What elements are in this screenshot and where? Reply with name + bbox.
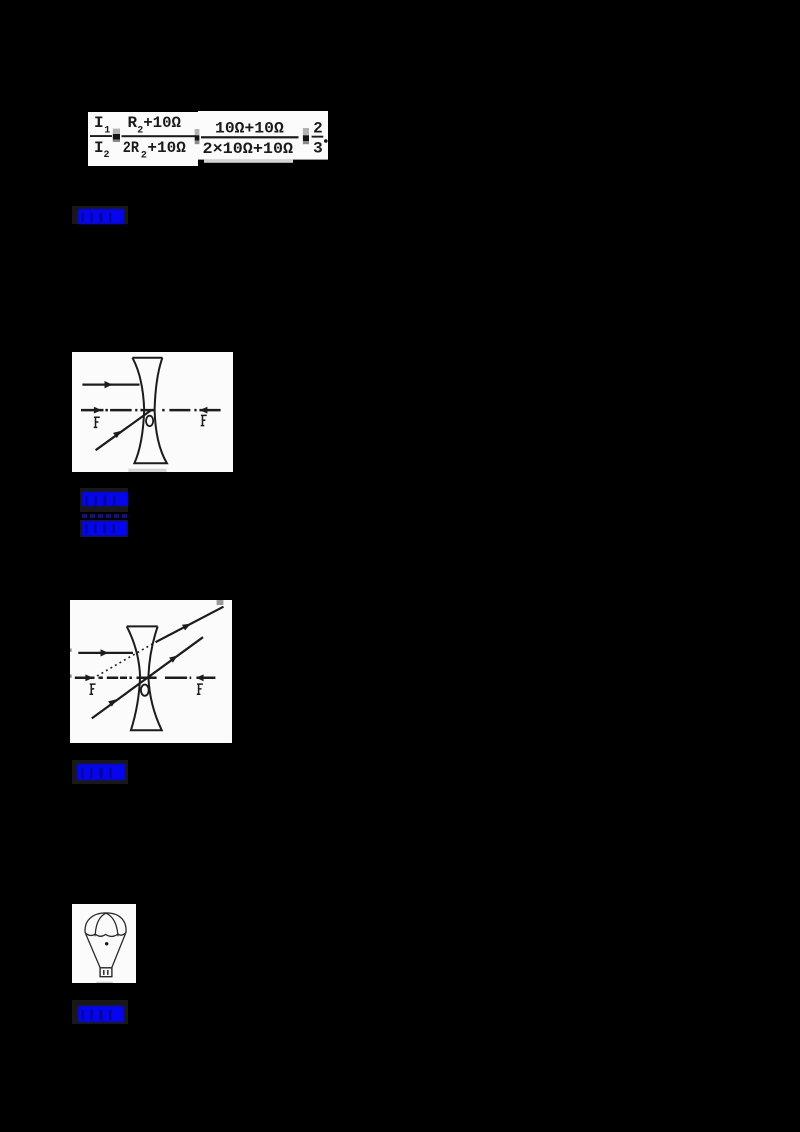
- link blob 5: [72, 1000, 128, 1024]
- basket ticks: [103, 970, 107, 975]
- svg-text:2×10Ω+10Ω: 2×10Ω+10Ω: [203, 140, 294, 158]
- refracted ray arrowhead: [182, 623, 191, 630]
- svg-text:2R: 2R: [123, 139, 140, 157]
- svg-text:3: 3: [313, 140, 323, 158]
- F right label: [197, 684, 203, 694]
- svg-text:R: R: [128, 114, 138, 132]
- scalloped edge: [85, 932, 126, 936]
- trailing period: [324, 139, 328, 143]
- axis left arrowhead: [93, 407, 101, 414]
- svg-text:2: 2: [104, 150, 110, 161]
- O label: [141, 684, 149, 695]
- = sign 3: [303, 128, 309, 135]
- svg-text:1: 1: [104, 125, 110, 136]
- bottom gray strip: [128, 469, 166, 472]
- link blob 4: [72, 760, 128, 784]
- refracted ray: [155, 606, 223, 641]
- basket: [100, 968, 112, 977]
- incident ray (top, parallel): [82, 384, 139, 386]
- dark navy dashes: [82, 514, 130, 518]
- F left label: [90, 684, 96, 694]
- svg-text:2: 2: [141, 151, 147, 162]
- optical axis dash-dot: [81, 409, 221, 412]
- concave lens body: [132, 358, 167, 464]
- lens diagram 1 (question figure): [72, 352, 233, 472]
- diagonal arrowhead high: [169, 655, 177, 662]
- center dot: [105, 942, 108, 945]
- concave lens body: [127, 626, 162, 730]
- = sign 1: [113, 129, 120, 134]
- balloon figure: [72, 904, 136, 984]
- svg-text:I: I: [94, 114, 104, 132]
- svg-text:+10Ω: +10Ω: [147, 139, 186, 157]
- svg-text:2: 2: [313, 120, 323, 138]
- incident ray arrowhead: [104, 381, 112, 388]
- suspension lines: [85, 933, 100, 967]
- canopy ribs: [95, 913, 106, 933]
- fraction (10+10)/(2x10+10): [201, 136, 299, 138]
- svg-text:I: I: [94, 139, 104, 157]
- formula image (scanned equation): [88, 108, 330, 170]
- diagonal arrowhead low: [108, 699, 116, 706]
- gray notch top right: [217, 600, 224, 605]
- svg-text:+10Ω: +10Ω: [143, 114, 181, 132]
- bottom gray strip: [96, 981, 113, 983]
- F right label: [200, 415, 206, 425]
- O label: [146, 416, 153, 426]
- left edge gray marks: [70, 648, 72, 651]
- link blob 3: [80, 520, 128, 537]
- axis right arrowhead: [196, 674, 204, 681]
- diagonal ray through O: [95, 410, 151, 450]
- F left label: [93, 417, 99, 427]
- fraction I1/I2: [90, 135, 112, 137]
- incident ray arrowhead: [101, 649, 109, 656]
- lens diagram 2 (answer figure): [70, 600, 232, 743]
- cusp ticks: [95, 934, 118, 936]
- optical axis dash-dot: [75, 676, 216, 679]
- = sign 2: [195, 129, 200, 135]
- link blob 1: [72, 206, 128, 224]
- diagonal ray through O: [92, 637, 203, 718]
- axis right arrowhead: [199, 407, 207, 414]
- fraction 2/3: [312, 136, 324, 138]
- incident ray: [78, 652, 133, 654]
- diagonal ray arrowhead: [113, 431, 121, 438]
- link blob 2: [80, 488, 128, 513]
- axis left arrowhead: [85, 674, 93, 681]
- dotted back-extension to F: [97, 642, 155, 676]
- svg-text:10Ω+10Ω: 10Ω+10Ω: [215, 119, 284, 137]
- canopy outline: [85, 913, 126, 933]
- fraction (R2+10)/(2R2+10): [122, 135, 197, 137]
